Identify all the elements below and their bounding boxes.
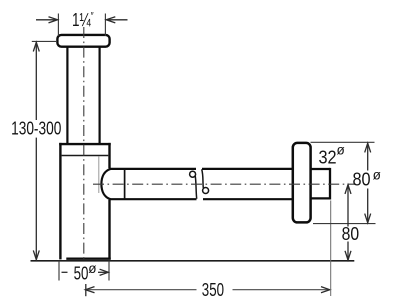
svg-text:ø: ø <box>336 143 344 158</box>
dimension 350: right extension line <box>330 201 332 297</box>
svg-text:80: 80 <box>352 168 370 189</box>
svg-text:ø: ø <box>373 168 381 183</box>
dimension 50 dia: extension lines <box>59 261 109 281</box>
svg-text:ø: ø <box>88 261 96 276</box>
dimension 80 dia: vertical line with arrows <box>365 143 371 223</box>
svg-text:80: 80 <box>342 223 359 245</box>
svg-text:350: 350 <box>202 280 224 301</box>
vertical centerline <box>83 27 85 262</box>
dimension 1 1/4 inch: extension lines <box>58 14 105 37</box>
vertical inlet pipe (tailpiece) <box>67 47 99 145</box>
svg-text:32: 32 <box>318 147 336 168</box>
pipe break symbol, right hook <box>202 169 209 193</box>
dimension 1 1/4 inch: arrows <box>36 17 128 23</box>
baseline (bottom reference line) <box>31 260 355 262</box>
dimension 50 dia: line and right arrow <box>62 269 109 275</box>
inner dip tube hint <box>98 157 100 194</box>
dimension 350: line with end arrows <box>86 289 330 291</box>
cap joint line <box>124 169 126 199</box>
horizontal centerline <box>93 183 356 185</box>
wall stub pipe <box>311 168 331 200</box>
trap bottle body <box>59 143 110 260</box>
bottle collar joint line <box>62 155 109 157</box>
svg-text:50: 50 <box>74 263 89 284</box>
top slip nut <box>57 35 109 47</box>
svg-text:130-300: 130-300 <box>11 119 61 139</box>
pipe break symbol, left hook <box>190 171 197 199</box>
dimension 130-300: vertical line with arrows <box>33 42 39 259</box>
rounded cap of outlet pipe at bottle <box>101 169 110 199</box>
dimension 80 dia (flange): extension lines <box>311 142 376 223</box>
dimension 130-300: extension line <box>32 40 57 42</box>
wall flange (rosette) <box>293 143 311 223</box>
dimension 80 (centerline to base): vertical line with arrows <box>345 185 351 260</box>
horizontal outlet pipe, left segment <box>109 169 197 199</box>
horizontal outlet pipe, right segment <box>202 169 294 199</box>
